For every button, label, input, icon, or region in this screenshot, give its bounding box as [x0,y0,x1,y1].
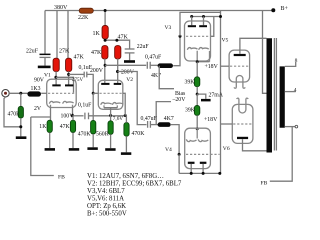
wire node to 39K lower [196,94,198,106]
svg-text:V1: V1 [44,73,51,79]
svg-text:8: 8 [295,58,298,64]
wire V2 left grid leak [92,93,94,120]
svg-text:FB: FB [261,180,268,186]
svg-text:380V: 380V [54,5,68,11]
resistor 4K7 lower [158,122,171,127]
wire 4K7 to V4 grid [171,125,179,155]
svg-text:22K: 22K [78,15,89,21]
wire V3 loop top [180,12,221,36]
svg-text:V3,V4: 6BL7: V3,V4: 6BL7 [87,188,125,195]
ground 22uF-1 [38,66,51,69]
resistor 560R [108,121,113,135]
svg-text:4K7: 4K7 [164,116,174,122]
svg-text:V6: V6 [223,146,230,152]
svg-text:47K: 47K [91,50,102,56]
resistor 22K [79,8,93,13]
node V4 cathode [196,127,199,130]
svg-text:V2: 12BH7, ECC99; 6BX7, 6BL7: V2: 12BH7, ECC99; 6BX7, 6BL7 [87,180,182,187]
wire to ground [125,136,127,152]
wire secondary tap 8 [285,62,296,66]
tube V4 [165,128,210,168]
transformer core [274,38,276,151]
wire rail to 22uF [44,11,46,55]
wire rail to 27K [56,11,58,60]
svg-text:100V: 100V [61,113,75,119]
ground 560R [105,148,115,151]
wire 27mA tap [197,94,206,99]
wire cap to V2 grid [87,74,93,93]
svg-text:470K: 470K [78,131,92,137]
wire to ground [110,134,112,148]
wire 39K to node [196,87,198,94]
svg-text:470K: 470K [132,131,146,137]
svg-text:V3: V3 [165,25,172,31]
wire FB down [31,117,54,176]
wire 47K to ground [72,133,74,149]
ground 470K-2 [87,147,97,150]
resistor 47K cathode [70,120,75,132]
tube V2 [98,77,133,109]
svg-text:OPT: Zp 6,6K: OPT: Zp 6,6K [87,203,126,210]
tube V5 [222,38,250,89]
wire B+ rail [45,10,273,12]
wire V4 plate join [179,172,220,174]
node V3 grid [179,35,182,38]
svg-text:27K: 27K [59,49,70,55]
node V1 left plate [54,76,57,79]
svg-text:47K: 47K [60,124,71,130]
wire secondary tap 0 [285,126,295,128]
svg-text:4: 4 [294,88,297,94]
wire FB to cathode [31,116,51,118]
svg-text:275V: 275V [72,78,84,83]
wire V4 grid loop down [178,154,180,173]
svg-text:V1: 12AU7, 6SN7, 6F8G…: V1: 12AU7, 6SN7, 6F8G… [87,173,164,180]
transformer OPT primary [267,38,273,152]
resistor 470K V2 left [91,120,96,134]
wire V3 grid strap [211,17,214,37]
node V2 left grid [92,92,95,95]
wire V3 cathode join [197,61,209,63]
wire jack to 1K3 [9,92,30,94]
svg-text:FB: FB [58,174,65,180]
wire V3 plate leads [192,17,204,26]
node right [115,39,118,42]
tube V3 [165,21,211,62]
svg-text:+18V: +18V [204,117,218,123]
svg-text:V5: V5 [222,38,229,44]
node V3 plate left [190,15,193,18]
wire 47K to V1 plate [68,71,70,84]
resistor 470K V2 right [124,123,129,137]
wire V4 plate leads [191,164,203,174]
tube V1 [34,73,76,108]
svg-text:1K: 1K [93,31,101,37]
wire B+ drop to V6 grid bottom [220,11,222,174]
svg-text:47K: 47K [118,35,129,41]
ground 470K-3 [121,152,131,155]
ground 1K [45,148,55,151]
wire grid into V2 [93,92,99,94]
svg-text:39K: 39K [185,108,196,114]
wire lower coupling [73,115,84,117]
svg-text:+18V: +18V [205,64,219,70]
svg-text:0,1uF: 0,1uF [78,103,92,109]
ground input [16,136,27,139]
wire 1K to node [104,39,106,41]
wire 47K to V2 right plate [117,59,119,83]
resistor 47K V1 right [66,58,72,71]
node input [19,92,22,95]
wire lower channel plate tap [118,72,147,125]
wire V2 supply node [105,40,130,49]
wire 1K3 to V1 grid [41,92,47,94]
node plate rail junction [219,15,222,18]
resistor 47K V2 left [102,46,108,59]
wire V6 plate to OPT [243,139,267,151]
input jack [2,90,9,97]
resistor 470k input [18,106,23,118]
svg-text:22uF: 22uF [137,44,150,50]
svg-text:B+: B+ [281,6,289,12]
resistor 1K cathode [47,120,52,132]
wire bias tap lower [156,102,171,125]
node B+ terminal [271,8,275,12]
svg-text:22uF: 22uF [26,49,39,55]
resistor 47K V2 right [115,46,121,59]
node 0,47uF tap [104,64,107,67]
wire input to 470k [20,93,22,106]
wire V6 grid [221,123,233,125]
svg-text:39K: 39K [185,80,196,86]
svg-text:200V: 200V [121,69,135,75]
resistor 4K7 upper [158,63,173,68]
wire V2 right grid [123,93,125,115]
svg-text:47K: 47K [74,54,85,60]
node V4 grid [178,153,181,156]
svg-text:0,47uF: 0,47uF [145,54,162,60]
wire 4K7 to V3 grid [173,36,180,65]
wire top lead [125,116,127,123]
svg-text:V2: V2 [126,77,133,83]
svg-text:560R: 560R [96,131,109,137]
node 470K right [124,114,127,117]
wire to ground [92,134,94,147]
wire 47K to V2 left plate [104,59,106,83]
wire upper 0,47uF line [105,64,146,66]
node V3 cathode [196,60,199,63]
svg-text:B+: 500-550V: B+: 500-550V [87,210,127,217]
wire 27K to V1 plate [55,71,57,84]
node lower tap [116,70,119,73]
node junction rail 1K [104,9,107,12]
resistor 27K [53,58,59,71]
wire 39K to V4 [196,115,198,128]
wire 1K to ground [49,133,51,149]
wire B+ to OPT primary [263,11,267,94]
svg-text:1K3: 1K3 [31,86,41,92]
wire V2 cathodes join [104,108,117,116]
node 100V [71,114,74,117]
svg-text:7,6V: 7,6V [113,116,123,122]
node chain middle [196,93,199,96]
wire 47K top lead [72,116,74,121]
node left [104,39,107,42]
node V1 right plate [67,73,70,76]
transformer secondary [280,66,285,127]
wire V4 grid dash ext [210,153,219,155]
svg-text:1K: 1K [39,124,47,130]
notes text block [87,173,182,218]
resistor 39K upper [194,77,199,87]
svg-text:27mA: 27mA [209,92,224,98]
svg-text:470k: 470k [8,112,20,118]
svg-text:V5,V6: 811A: V5,V6: 811A [87,195,124,202]
wire V1 left plate to right grid [56,77,74,93]
wire secondary tap 4 [285,91,296,93]
resistor 1K3 [27,91,41,96]
svg-text:0,47uF: 0,47uF [141,116,158,122]
node V3 plate right [202,15,205,18]
node V4 plate left [190,172,193,175]
node loop bottom [218,172,221,175]
wire 560R [110,116,112,121]
svg-text:V4: V4 [165,147,172,153]
wire V5 grid [221,65,230,67]
wire jack shield [4,97,21,127]
wire cathode to 39K [196,62,198,77]
bar 27mA [201,99,211,102]
wire rail to 1K [104,11,106,27]
wire rail to 47K [67,11,69,60]
wire V5 plate to OPT [240,38,267,54]
wire V1 plate to coupling cap [69,73,84,75]
tube V6 [223,98,253,152]
svg-text:90V: 90V [34,77,45,83]
svg-text:200V: 200V [90,68,104,74]
ground 47K [69,148,79,151]
ground 22uF-2 [124,60,135,63]
node V4 plate right [202,172,205,175]
wire V1 right cathode [72,108,74,116]
wire plate rail V3 [192,16,221,18]
svg-text:–20V: –20V [172,97,187,103]
svg-text:2V: 2V [34,106,42,112]
wire FB from secondary [270,127,292,182]
wire bias tap upper [159,66,174,89]
wire 470k to ground [20,118,22,136]
node shield join [19,125,22,128]
node 560R top [109,114,112,117]
resistor 39K lower [194,106,199,116]
wire V1 left cathode [50,108,52,121]
resistor 1K top [102,26,108,39]
